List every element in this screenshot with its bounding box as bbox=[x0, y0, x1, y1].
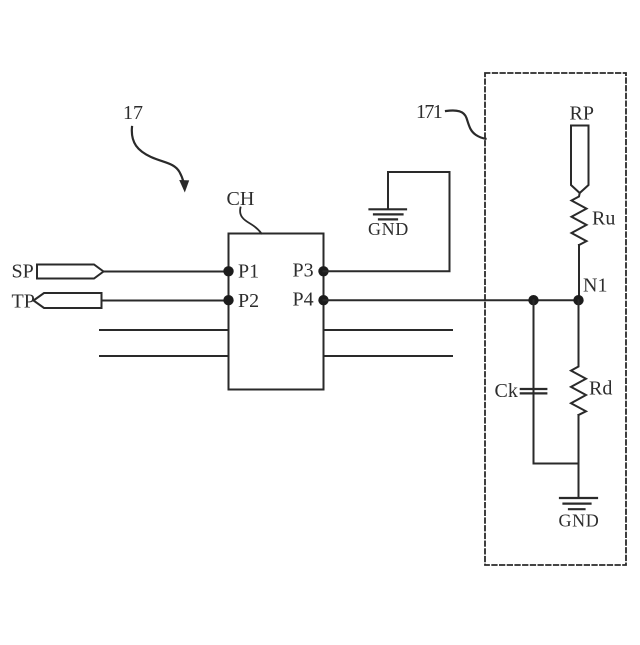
svg-text:SP: SP bbox=[12, 261, 34, 283]
svg-text:P2: P2 bbox=[238, 290, 259, 312]
terminal SP bbox=[37, 265, 104, 279]
label 171 bbox=[416, 101, 442, 123]
svg-text:P4: P4 bbox=[293, 289, 314, 311]
bus wire lower left bbox=[100, 355, 229, 357]
wire Ru to N1 bbox=[578, 245, 580, 300]
svg-text:GND: GND bbox=[559, 511, 600, 531]
svg-text:RP: RP bbox=[570, 103, 594, 125]
capacitor Ck bbox=[495, 380, 547, 402]
leader squiggle for 171 bbox=[446, 110, 486, 138]
svg-text:P1: P1 bbox=[238, 261, 259, 283]
resistor Rd bbox=[571, 363, 612, 415]
block CH bbox=[229, 234, 324, 390]
bus wire upper right bbox=[324, 329, 452, 331]
wire Rd to ground bbox=[578, 415, 580, 498]
pin P4 bbox=[293, 289, 329, 311]
pin P1 bbox=[223, 261, 259, 283]
terminal RP bbox=[571, 126, 589, 194]
svg-text:P3: P3 bbox=[293, 260, 314, 282]
svg-text:GND: GND bbox=[368, 219, 409, 239]
label 17 bbox=[123, 102, 143, 124]
junction dot Ck branch bbox=[528, 295, 538, 305]
svg-text:TP: TP bbox=[12, 291, 35, 313]
wire P3 to top ground bbox=[324, 172, 450, 271]
wire TP to P2 bbox=[102, 300, 229, 302]
ground GND top bbox=[368, 209, 409, 239]
resistor Ru bbox=[572, 193, 616, 245]
svg-text:171: 171 bbox=[416, 101, 442, 123]
label TP bbox=[12, 291, 35, 313]
leader squiggle for CH bbox=[240, 208, 261, 234]
bus wire lower right bbox=[324, 355, 452, 357]
node N1 bbox=[573, 275, 607, 306]
wire N1 to Rd bbox=[578, 300, 580, 363]
svg-text:Ck: Ck bbox=[495, 380, 518, 402]
svg-text:N1: N1 bbox=[583, 275, 607, 297]
wire P4 to node N1 bbox=[324, 299, 579, 301]
ground GND bottom bbox=[559, 498, 600, 531]
wire junction to capacitor Ck bbox=[533, 300, 535, 463]
pin P2 bbox=[223, 290, 259, 312]
leader arrow for 17 bbox=[132, 127, 189, 193]
svg-text:Ru: Ru bbox=[592, 208, 615, 230]
wire Ck bottom to Rd bottom bbox=[534, 463, 579, 465]
bus wire upper left bbox=[100, 329, 229, 331]
label RP bbox=[570, 103, 594, 125]
wire SP to P1 bbox=[104, 271, 229, 273]
pin P3 bbox=[293, 260, 329, 282]
dashed box 171 bbox=[485, 73, 626, 565]
label CH bbox=[227, 188, 255, 210]
svg-text:17: 17 bbox=[123, 102, 143, 124]
terminal TP bbox=[34, 293, 102, 308]
label SP bbox=[12, 261, 34, 283]
svg-text:Rd: Rd bbox=[589, 378, 612, 400]
